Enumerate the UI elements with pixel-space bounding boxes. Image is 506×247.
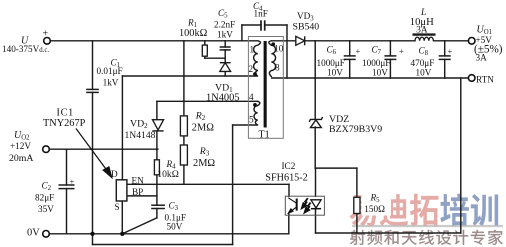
svg-text:2MΩ: 2MΩ bbox=[193, 158, 215, 169]
transformer dot pin4 bbox=[253, 103, 257, 107]
wire top rail secondary pin10 to VD3 bbox=[272, 40, 296, 42]
wire top rail primary bbox=[47, 40, 258, 42]
transformer primary winding pins 1-2 bbox=[254, 41, 261, 76]
svg-text:3A: 3A bbox=[416, 25, 428, 35]
transformer bias winding pins 4-5 bbox=[254, 101, 260, 125]
wire RTN rail bbox=[272, 77, 469, 79]
capacitor C1 bbox=[86, 89, 99, 92]
svg-text:1000μF: 1000μF bbox=[317, 58, 345, 68]
svg-text:EN: EN bbox=[132, 175, 145, 185]
wire R1 bottom stub bbox=[204, 56, 206, 58]
wire EN line bbox=[127, 183, 289, 185]
resistor R3 bbox=[180, 145, 187, 165]
transformer T1 box bbox=[248, 37, 283, 139]
svg-text:T1: T1 bbox=[259, 130, 270, 141]
zener VDZ bbox=[309, 117, 322, 128]
svg-text:+12V: +12V bbox=[10, 141, 31, 151]
transformer dot pin10 bbox=[271, 42, 275, 46]
wire R4 to EN line bbox=[156, 175, 158, 185]
wire C8 top bbox=[444, 41, 446, 56]
svg-text:4: 4 bbox=[249, 92, 254, 102]
wire R3 to EN line bbox=[183, 165, 185, 184]
svg-text:RTN: RTN bbox=[476, 75, 494, 85]
svg-text:+: + bbox=[70, 177, 75, 187]
wire R5 top bbox=[356, 168, 358, 197]
wire top rail L to +5V terminal bbox=[434, 40, 469, 42]
svg-text:35V: 35V bbox=[38, 204, 54, 214]
diode VD3 bbox=[296, 36, 305, 45]
watermark tagline 射频和天线设计专家 bbox=[350, 230, 503, 245]
inductor L bbox=[413, 35, 436, 41]
wire pin4 horizontal bbox=[157, 100, 258, 102]
svg-text:+: + bbox=[399, 46, 404, 56]
wire clamp bottom bus bbox=[205, 57, 225, 59]
wire C2 top bbox=[66, 149, 68, 185]
wire drain horizontal to pin2 bbox=[122, 75, 257, 77]
wire C7 top bbox=[389, 41, 391, 56]
svg-text:1000μF: 1000μF bbox=[362, 58, 390, 68]
svg-text:10V: 10V bbox=[416, 68, 432, 78]
terminal input + bbox=[44, 38, 51, 45]
svg-text:IC2: IC2 bbox=[282, 161, 296, 171]
wire S pin bbox=[121, 201, 123, 234]
wire VD2 top bbox=[156, 101, 158, 119]
transformer secondary winding pins 10-8 bbox=[269, 41, 276, 77]
capacitor C7 bbox=[384, 56, 396, 60]
svg-text:BP: BP bbox=[132, 187, 143, 197]
wire opto LED cathode drop bbox=[315, 209, 317, 233]
wire C4 right horizontal bbox=[265, 24, 287, 26]
transformer T1 core bbox=[264, 41, 267, 128]
transformer dot pin2 bbox=[253, 72, 257, 76]
wire top rail VD3 to L bbox=[305, 40, 415, 42]
wire VD1 anode to drain wire bbox=[224, 71, 226, 76]
wire junction to R4 bbox=[156, 149, 158, 160]
terminal 0V bbox=[43, 231, 50, 238]
svg-text:VDZ: VDZ bbox=[329, 114, 349, 125]
wire C4 left horizontal bbox=[242, 24, 261, 26]
svg-text:SFH615-2: SFH615-2 bbox=[265, 172, 307, 183]
wire node A to opto LED bbox=[315, 168, 317, 196]
svg-text:10V: 10V bbox=[327, 68, 343, 78]
svg-text:0.01μF: 0.01μF bbox=[97, 66, 123, 76]
junction dot C1/0V rail bbox=[90, 232, 94, 236]
optocoupler phototransistor bbox=[288, 198, 296, 213]
svg-text:10V: 10V bbox=[372, 68, 388, 78]
wire opto collector drop bbox=[288, 184, 290, 196]
wire C6 bottom bbox=[349, 59, 351, 78]
svg-text:10kΩ: 10kΩ bbox=[157, 169, 179, 180]
wire pin5 stub bbox=[233, 124, 258, 126]
optocoupler LED bbox=[311, 200, 321, 209]
resistor R1 bbox=[202, 45, 207, 56]
optocoupler light arrows bbox=[302, 198, 311, 212]
wire R1 top stub bbox=[204, 41, 206, 45]
wire drain vertical bbox=[121, 76, 123, 180]
svg-text:1N4148: 1N4148 bbox=[125, 130, 156, 141]
IC1 TNY267P body bbox=[116, 180, 127, 201]
wire C4 left drop bbox=[241, 25, 243, 41]
resistor R2 bbox=[180, 116, 187, 136]
wire C7 bottom bbox=[389, 59, 391, 78]
wire C1 branch vertical bbox=[92, 41, 94, 90]
wire node A to R5 bbox=[315, 167, 357, 169]
wire C5 top stub bbox=[224, 41, 226, 47]
watermark logo 易迪拓培训 bbox=[349, 194, 498, 227]
resistor R4 bbox=[154, 160, 159, 175]
terminal U02 bbox=[43, 146, 50, 153]
wire C3 bottom stub bbox=[156, 209, 158, 218]
svg-text:5: 5 bbox=[249, 114, 254, 124]
svg-text:D: D bbox=[111, 169, 118, 179]
svg-text:+: + bbox=[43, 29, 49, 40]
svg-text:SB540: SB540 bbox=[293, 22, 320, 33]
svg-text:10: 10 bbox=[274, 44, 284, 54]
svg-text:100kΩ: 100kΩ bbox=[179, 28, 208, 39]
svg-text:2MΩ: 2MΩ bbox=[192, 122, 214, 133]
svg-text:S: S bbox=[115, 202, 120, 212]
wire opto emitter drop bbox=[288, 214, 290, 234]
svg-text:+: + bbox=[356, 46, 361, 56]
wire C5 bottom to VD1 bbox=[224, 50, 226, 63]
svg-text:1: 1 bbox=[250, 44, 255, 54]
svg-text:2.2nF: 2.2nF bbox=[214, 20, 235, 30]
svg-text:2: 2 bbox=[249, 64, 254, 74]
svg-text:1N4005: 1N4005 bbox=[206, 93, 239, 104]
svg-text:470μF: 470μF bbox=[411, 58, 435, 68]
svg-text:150Ω: 150Ω bbox=[364, 204, 385, 214]
terminal RTN bbox=[468, 75, 475, 82]
svg-text:50V: 50V bbox=[167, 222, 183, 232]
wire C6 top bbox=[349, 41, 351, 56]
wire feedback bottom rail bbox=[316, 232, 461, 234]
svg-text:+: + bbox=[448, 46, 453, 56]
wire 0V rail bbox=[47, 233, 289, 235]
diode VD2 bbox=[153, 120, 164, 131]
wire R5 bottom bbox=[356, 214, 358, 234]
wire VDZ branch upper bbox=[314, 41, 316, 119]
wire R2 to R3 bbox=[183, 136, 185, 145]
wire C8 bottom bbox=[444, 59, 446, 78]
watermark underline bar bbox=[352, 225, 503, 227]
capacitor C3 bbox=[151, 205, 165, 208]
wire C3 diagonal bbox=[122, 218, 157, 234]
wire EN to C3 bbox=[156, 184, 158, 205]
svg-text:8: 8 bbox=[275, 63, 280, 73]
wire BP line bbox=[127, 195, 157, 197]
svg-text:20mA: 20mA bbox=[9, 153, 34, 164]
optocoupler IC2 box bbox=[285, 196, 324, 215]
capacitor C8 bbox=[439, 56, 451, 60]
wire bias loop riser bbox=[92, 234, 94, 245]
wire pin5 vertical bbox=[232, 125, 234, 245]
wire VDZ to node A bbox=[314, 127, 316, 168]
wire C2 bottom bbox=[66, 189, 68, 234]
capacitor C4 bbox=[261, 20, 265, 30]
wire bias loop bottom bbox=[93, 244, 233, 246]
diode VD1 bbox=[220, 63, 231, 72]
wire feedback riser to RTN bbox=[460, 78, 462, 233]
capacitor C2 bbox=[59, 185, 75, 189]
svg-text:TNY267P: TNY267P bbox=[43, 118, 86, 129]
svg-text:BZX79B3V9: BZX79B3V9 bbox=[329, 124, 382, 135]
svg-text:1kV: 1kV bbox=[103, 78, 119, 88]
wire C4 right drop to RTN bbox=[286, 25, 288, 78]
svg-text:0V: 0V bbox=[27, 228, 40, 239]
svg-text:L: L bbox=[420, 7, 426, 17]
IC1 pointer arrow bbox=[76, 129, 112, 178]
terminal U01 +5V bbox=[468, 38, 475, 45]
resistor R5 bbox=[354, 197, 360, 213]
wire +12V line bbox=[47, 148, 158, 150]
svg-text:IC1: IC1 bbox=[57, 107, 74, 118]
capacitor C6 bbox=[344, 56, 356, 60]
junction dot S/0V rail bbox=[120, 232, 124, 236]
svg-text:82μF: 82μF bbox=[35, 193, 54, 203]
wire R2 sense line top bbox=[183, 41, 185, 116]
capacitor C5 bbox=[220, 47, 231, 50]
svg-text:3A: 3A bbox=[476, 53, 488, 63]
label backing R5 bbox=[362, 194, 392, 216]
wire VD2 bottom to junction bbox=[156, 131, 158, 149]
svg-text:1nF: 1nF bbox=[254, 9, 268, 19]
svg-text:1kV: 1kV bbox=[217, 29, 233, 39]
